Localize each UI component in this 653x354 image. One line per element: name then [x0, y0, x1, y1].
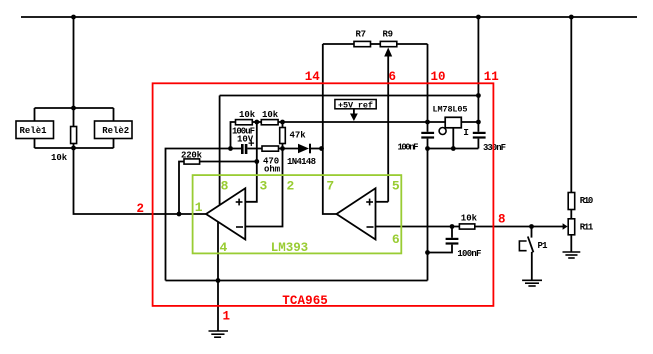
wire pin14/pin7 line: [323, 44, 337, 214]
svg-text:LM393: LM393: [271, 241, 309, 255]
svg-text:7: 7: [326, 179, 334, 194]
node junction relay top: [71, 106, 76, 111]
resistor 10k (relay): [51, 108, 77, 163]
wire output row right part: [475, 226, 563, 228]
wire relay to comparator output: [74, 148, 207, 214]
potentiometer R9: [376, 30, 397, 202]
svg-text:1N4148: 1N4148: [287, 157, 316, 167]
svg-text:R10: R10: [580, 196, 594, 206]
svg-text:3: 3: [260, 179, 268, 194]
relay Relè1: [16, 121, 54, 139]
svg-text:1: 1: [195, 200, 203, 215]
svg-text:11: 11: [484, 70, 499, 84]
svg-text:I: I: [463, 127, 469, 138]
wire comparator2 minus row to R11: [376, 226, 460, 228]
node junction relay bottom: [71, 146, 76, 151]
potentiometer R11: [568, 219, 594, 235]
svg-text:6: 6: [389, 70, 397, 84]
capacitor 330nF: [473, 132, 506, 153]
wire bottom ground rail: [166, 280, 428, 282]
svg-text:100nF: 100nF: [457, 249, 481, 259]
svg-text:P1: P1: [538, 241, 549, 251]
svg-text:TCA965: TCA965: [282, 294, 328, 308]
wire R7 R9 row: [323, 43, 428, 45]
capacitor 100nF (output): [428, 227, 482, 260]
node junction top rail left: [71, 15, 76, 20]
node junction regulator output: [425, 120, 430, 125]
wire relay branch vertical: [73, 17, 75, 108]
node junction reg gnd center: [451, 146, 456, 151]
svg-text:8: 8: [498, 213, 506, 227]
wiper arrow into R11: [563, 223, 568, 229]
wire 10k1 left lead: [231, 122, 236, 149]
wire ground-left riser and cap row: [166, 149, 242, 281]
node junction 100nF output: [450, 224, 455, 229]
wire R10-R11: [570, 210, 572, 219]
wire R10 branch from top rail: [570, 17, 572, 193]
regulator LM78L05: [433, 105, 479, 149]
switch P1: [519, 227, 548, 280]
node junction V+ rail / pin11: [476, 93, 481, 98]
svg-text:10k: 10k: [239, 110, 256, 120]
svg-text:14: 14: [305, 70, 321, 84]
node junction 470/47k/diode: [280, 146, 285, 151]
node junction reg gnd left: [425, 146, 430, 151]
relay Relè2: [95, 121, 133, 139]
node junction P1 tap: [529, 224, 534, 229]
wire between 10k resistors: [252, 121, 261, 123]
svg-text:Relè2: Relè2: [102, 126, 129, 136]
wire pin10 line: [427, 44, 429, 122]
node junction diode/pin14 line: [319, 146, 324, 151]
resistor 220k: [179, 151, 257, 215]
svg-text:6: 6: [392, 232, 400, 247]
wire relay top rail: [35, 107, 114, 109]
resistor 47k: [280, 122, 307, 149]
svg-text:R9: R9: [383, 30, 394, 40]
resistor 470 ohm: [262, 146, 281, 175]
wire pin3 line: [245, 122, 256, 202]
capacitor C1 100uF 10V: [232, 127, 262, 155]
wire V+ rail: [220, 95, 479, 97]
node junction 100nF to ground riser: [425, 250, 430, 255]
ground symbol R11: [563, 252, 581, 258]
svg-text:2: 2: [287, 179, 295, 194]
wire Relè1 stubs: [34, 108, 36, 148]
svg-text:5: 5: [392, 179, 400, 194]
capacitor 100nF (regulator output): [398, 122, 435, 153]
diode 1N4148: [279, 144, 323, 167]
svg-text:1: 1: [223, 310, 231, 324]
wire top supply rail: [21, 16, 637, 18]
ground symbol P1: [522, 280, 542, 286]
op-amp comparator 1 (LM393 A): [206, 188, 245, 239]
node junction top rail R10 branch: [569, 15, 574, 20]
wire pin11 line from top rail: [477, 17, 479, 132]
svg-text:10k: 10k: [262, 110, 279, 120]
svg-text:ohm: ohm: [264, 165, 281, 175]
node junction 220k tap: [177, 212, 182, 217]
resistor 10k second: [261, 110, 279, 125]
svg-text:+5V ref: +5V ref: [338, 100, 373, 110]
svg-text:R11: R11: [580, 223, 594, 233]
svg-text:47k: 47k: [290, 131, 307, 141]
svg-text:LM78L05: LM78L05: [433, 105, 468, 115]
svg-text:100nF: 100nF: [398, 143, 419, 153]
wire 5V row from 10k2 to regulator: [278, 121, 445, 123]
wire ground right riser: [427, 149, 429, 281]
resistor 10k first: [236, 110, 256, 125]
wire relay bottom rail: [35, 147, 114, 149]
svg-text:R7: R7: [356, 30, 367, 40]
node junction 10k2/47k: [280, 120, 285, 125]
svg-text:330nF: 330nF: [483, 143, 506, 153]
wire regulator ground row: [428, 148, 479, 150]
node junction regulator input: [476, 120, 481, 125]
node junction 220k to pin3 line: [254, 159, 259, 164]
IC box LM393 (green): [193, 175, 402, 255]
wire R11 to ground: [570, 235, 572, 252]
resistor 10k output: [459, 214, 477, 230]
svg-text:10k: 10k: [51, 153, 68, 163]
IC box TCA965 (red): [153, 83, 494, 308]
svg-text:10k: 10k: [461, 214, 478, 224]
voltage reference +5V ref: [335, 100, 376, 122]
ground symbol main: [209, 331, 229, 337]
node junction top rail regulator branch: [476, 15, 481, 20]
node junction pin1 ground: [216, 278, 221, 283]
node junction 10k/10k pin3: [254, 120, 259, 125]
svg-text:2: 2: [137, 202, 145, 216]
wire pin2 line: [245, 149, 282, 227]
wire pin8 line: [219, 96, 221, 205]
svg-text:220k: 220k: [181, 151, 203, 161]
resistor R10: [568, 193, 593, 210]
svg-text:4: 4: [220, 240, 228, 255]
wire pin4 line to ground: [217, 222, 219, 331]
wire Relè2 stubs: [113, 108, 115, 148]
svg-text:10: 10: [431, 70, 446, 84]
resistor R7: [354, 30, 371, 47]
op-amp comparator 2 (LM393 B): [337, 188, 376, 239]
svg-text:Relè1: Relè1: [20, 126, 48, 136]
node junction 100uF / 10k1: [228, 146, 233, 151]
svg-text:8: 8: [221, 179, 229, 194]
